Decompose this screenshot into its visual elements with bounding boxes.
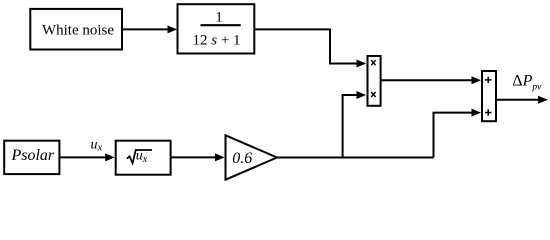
- source block Psolar: [4, 141, 59, 174]
- source block White noise: [30, 9, 122, 50]
- wire Psolar to sqrt block: [60, 153, 115, 161]
- gain block 0.6 (triangle): [226, 135, 278, 179]
- output wire with arrow: [496, 96, 548, 104]
- node label u_x: [91, 138, 103, 154]
- svg-text:1: 1: [215, 10, 223, 26]
- wire White noise to transfer function: [122, 25, 177, 33]
- product block (two multiply inputs): [368, 56, 381, 106]
- svg-text:Psolar: Psolar: [10, 147, 54, 164]
- sum block (two plus inputs): [482, 71, 496, 121]
- svg-text:12 s + 1: 12 s + 1: [192, 33, 240, 49]
- wire gain output rail: [277, 157, 434, 159]
- wire sqrt block to gain block: [171, 153, 225, 161]
- output label delta P pv: [512, 72, 542, 92]
- wire gain branch to sum block bottom input: [434, 109, 482, 158]
- svg-text:0.6: 0.6: [232, 150, 252, 167]
- wire transfer function to product block top input: [254, 29, 366, 67]
- transfer function block 1/(12s+1): [178, 4, 255, 53]
- wire gain branch to product block bottom input: [343, 91, 366, 158]
- sqrt block: [116, 141, 171, 175]
- svg-text:White noise: White noise: [42, 23, 114, 39]
- wire product block to sum block top input: [381, 76, 481, 84]
